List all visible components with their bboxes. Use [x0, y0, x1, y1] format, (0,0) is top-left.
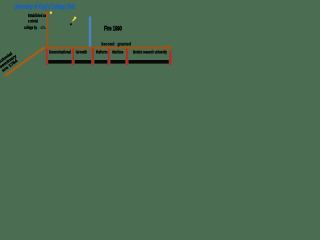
svg-text:ch.: ch.	[40, 25, 46, 30]
axis right arrowhead	[167, 45, 172, 51]
svg-text:Second: Second	[101, 42, 115, 47]
axis diagonal (early era)	[7, 48, 45, 75]
period bar 3	[94, 60, 107, 64]
period bar 5	[129, 60, 169, 64]
founding pin (vertical)	[46, 13, 48, 47]
svg-text:University of King's College 1: University of King's College 1843	[14, 4, 75, 11]
blue event line	[89, 17, 91, 48]
diagonal arrowhead	[3, 72, 8, 77]
svg-text:Denominational: Denominational	[49, 50, 71, 55]
yellow dot at pin top	[50, 12, 52, 14]
background	[0, 0, 175, 77]
black speck below bolt	[70, 23, 72, 25]
orange dot under bolt	[72, 21, 74, 23]
svg-text:Established as: Established as	[28, 13, 46, 18]
svg-text:Reform: Reform	[96, 50, 107, 55]
svg-text:Wartime: Wartime	[112, 50, 124, 55]
svg-text:granted: granted	[117, 42, 131, 47]
svg-text:Growth: Growth	[76, 50, 87, 55]
yellow bolt icon	[74, 17, 76, 19]
svg-text:college by: college by	[24, 25, 37, 30]
red gridline tick 4	[108, 49, 110, 66]
red gridline tick 2	[72, 49, 74, 66]
red gridline tick 6 (end)	[169, 51, 171, 65]
pin cross arm	[45, 12, 50, 14]
period bar 4	[110, 60, 125, 64]
svg-text:a colonial: a colonial	[28, 19, 38, 24]
red gridline tick 1	[46, 49, 48, 66]
svg-text:Modern research university: Modern research university	[133, 50, 167, 55]
rotated early-era label	[0, 49, 21, 72]
period bar 1	[48, 60, 71, 64]
red gridline tick 5	[126, 49, 128, 66]
svg-text:Fire 1890: Fire 1890	[104, 27, 122, 33]
red gridline tick 3	[92, 49, 94, 66]
main axis horizontal	[44, 47, 168, 49]
period bar 2	[75, 60, 92, 64]
